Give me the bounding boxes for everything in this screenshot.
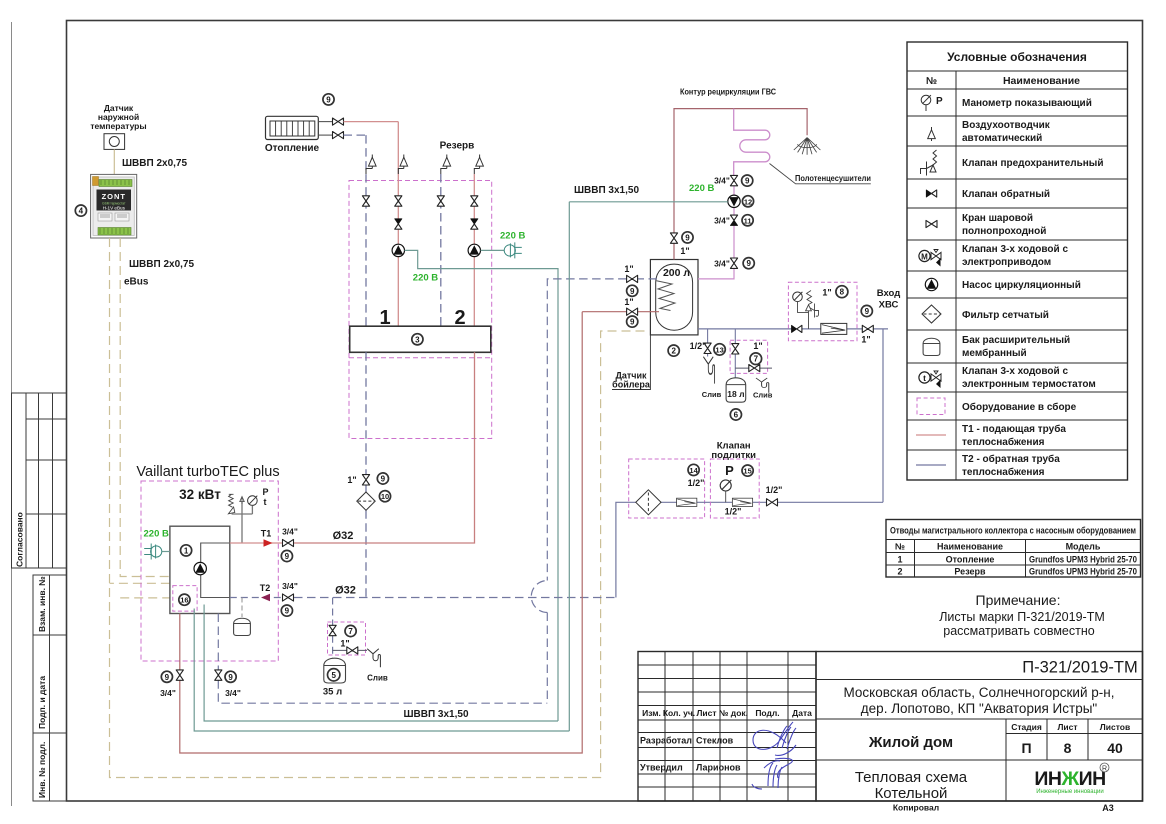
position 9 badge <box>682 232 693 243</box>
svg-text:Стадия: Стадия <box>1011 722 1042 732</box>
valve on riser D <box>471 196 478 206</box>
svg-text:П: П <box>1021 740 1031 756</box>
svg-text:10: 10 <box>381 492 389 501</box>
svg-text:Резерв: Резерв <box>954 567 986 577</box>
position 9 badge <box>225 671 236 682</box>
svg-text:1/2": 1/2" <box>690 341 707 351</box>
svg-text:Изм.: Изм. <box>642 708 661 718</box>
svg-text:ШВВП 2x0,75: ШВВП 2x0,75 <box>122 158 187 169</box>
legend symbol: 3-way valve with thermostat <box>919 371 941 388</box>
svg-text:Московская область, Солнечного: Московская область, Солнечногорский р-н, <box>844 685 1115 700</box>
svg-text:P: P <box>936 96 943 107</box>
svg-text:16: 16 <box>180 596 188 605</box>
svg-text:ШВВП 2x0,75: ШВВП 2x0,75 <box>129 259 194 270</box>
gauge stem <box>798 302 809 313</box>
svg-text:9: 9 <box>685 233 690 242</box>
wire 220V pump 2 <box>481 249 504 251</box>
make-up filter box 14 <box>629 459 705 518</box>
svg-text:Согласовано: Согласовано <box>15 512 25 567</box>
3-way valve zone dashed box <box>173 586 197 612</box>
pressure reducer spring <box>806 291 819 329</box>
svg-text:электронным термостатом: электронным термостатом <box>962 379 1096 390</box>
boiler internal pipe <box>201 543 230 598</box>
svg-text:Grundfos UPM3 Hybrid 25-70: Grundfos UPM3 Hybrid 25-70 <box>1029 555 1137 565</box>
svg-text:18 л: 18 л <box>727 389 744 399</box>
drain siphon <box>367 649 380 668</box>
boiler safety group piping <box>232 498 253 543</box>
signature scribbles <box>752 722 796 789</box>
valve 3/4" on cold pipe <box>215 670 222 680</box>
svg-text:200 л: 200 л <box>663 267 690 279</box>
plug pump 2 <box>504 242 522 258</box>
drain siphon 13 <box>703 357 714 384</box>
svg-text:ХВС: ХВС <box>879 300 899 311</box>
svg-text:Условные обозначения: Условные обозначения <box>947 50 1087 64</box>
svg-text:Насос циркуляционный: Насос циркуляционный <box>962 280 1081 291</box>
valve 3/4" top <box>730 175 737 185</box>
expansion tank 18l group box 7 <box>730 340 768 373</box>
legend symbol: strainer <box>922 305 941 323</box>
svg-text:t: t <box>923 373 926 383</box>
svg-text:Листы марки П-321/2019-ТМ: Листы марки П-321/2019-ТМ <box>939 610 1105 624</box>
svg-text:Копировал: Копировал <box>893 803 939 813</box>
legend symbol: T1 line <box>916 434 946 436</box>
svg-text:1/2": 1/2" <box>688 478 705 488</box>
valve on riser B <box>395 196 402 206</box>
svg-text:ШВВП 3х1,50: ШВВП 3х1,50 <box>574 185 639 196</box>
svg-text:220 В: 220 В <box>689 183 714 194</box>
svg-text:1/2": 1/2" <box>766 485 783 495</box>
recirculation drop with fittings <box>698 176 734 279</box>
cable eBus: ZONT to boiler <box>120 238 170 577</box>
wire 220V recirculation pump <box>569 201 728 203</box>
wire coil supply (from boiler DHW) <box>582 311 659 313</box>
boiler expansion tank stub <box>241 598 243 618</box>
check valve on riser B <box>395 219 402 229</box>
outdoor temperature sensor <box>104 134 125 150</box>
inlet valve 1" <box>862 325 873 332</box>
radiator supply stub <box>318 121 332 123</box>
svg-text:Тепловая схема: Тепловая схема <box>855 769 968 786</box>
position 11 badge <box>742 215 753 226</box>
riser B (heating supply, T1) <box>397 122 399 327</box>
collector group divider dashed <box>349 357 492 359</box>
svg-text:9: 9 <box>381 475 386 484</box>
svg-text:Оборудование в сборе: Оборудование в сборе <box>962 401 1077 413</box>
svg-text:1": 1" <box>822 288 831 298</box>
svg-text:Контур рециркуляции ГВС: Контур рециркуляции ГВС <box>680 87 776 97</box>
svg-text:Наименование: Наименование <box>1003 75 1080 87</box>
svg-text:А3: А3 <box>1102 803 1114 813</box>
controller ZONT H-1V eBus <box>91 174 137 238</box>
position 6 badge <box>730 409 741 420</box>
safety group dashed box 7 <box>328 622 366 655</box>
boiler power wire <box>162 551 170 553</box>
left margin stamp: inventory block <box>33 575 67 801</box>
drain siphon 18l <box>756 378 769 393</box>
svg-text:температуры: температуры <box>90 121 146 131</box>
svg-text:Т2 - обратная труба: Т2 - обратная труба <box>962 453 1060 465</box>
svg-text:3/4": 3/4" <box>714 259 730 269</box>
svg-text:мембранный: мембранный <box>962 347 1027 359</box>
svg-text:Воздухоотводчик: Воздухоотводчик <box>962 120 1051 131</box>
valve 1" on T2 drop <box>362 475 369 485</box>
position 7 badge <box>345 625 356 636</box>
assembled equipment dashed box: collector group <box>349 181 492 439</box>
svg-text:Лист: Лист <box>696 708 716 718</box>
svg-text:Котельной: Котельной <box>875 785 948 802</box>
svg-text:9: 9 <box>745 177 750 186</box>
air vent A foot <box>366 169 372 175</box>
svg-text:рассматривать совместно: рассматривать совместно <box>943 624 1094 638</box>
svg-text:Модель: Модель <box>1066 542 1101 552</box>
wire cold water main <box>698 328 888 330</box>
reducer cone 15 <box>732 498 752 506</box>
position 10 badge <box>379 491 390 502</box>
svg-text:T2: T2 <box>260 583 271 593</box>
svg-text:2: 2 <box>897 567 902 577</box>
svg-text:Отопление: Отопление <box>946 555 995 565</box>
svg-text:eBus: eBus <box>124 277 149 288</box>
tank sensor leader <box>612 335 650 390</box>
air vent C <box>443 155 451 169</box>
air vent C foot <box>441 169 447 175</box>
check valve in box 8 <box>792 325 802 332</box>
svg-text:35 л: 35 л <box>323 687 342 698</box>
svg-text:Стеклов: Стеклов <box>696 736 734 746</box>
svg-text:Листов: Листов <box>1100 722 1130 732</box>
position 9 badge <box>743 258 754 269</box>
svg-text:P: P <box>725 463 734 478</box>
svg-text:Инв. № подл.: Инв. № подл. <box>37 742 47 798</box>
wire T2 radiator return (dashed) <box>344 134 367 136</box>
legend symbol: expansion tank <box>923 338 940 355</box>
wire sensor to controller <box>113 149 115 174</box>
svg-text:9: 9 <box>165 673 170 682</box>
svg-text:4: 4 <box>79 207 84 216</box>
riser C (reserve return) <box>440 174 442 326</box>
svg-text:ИНЖИН: ИНЖИН <box>1034 768 1105 790</box>
svg-text:7: 7 <box>348 627 353 636</box>
wire T1 from collector down to boiler line <box>294 352 475 543</box>
svg-text:R: R <box>1102 766 1107 773</box>
svg-text:220 В: 220 В <box>500 231 525 242</box>
make-up wire <box>616 502 883 597</box>
pressure group dashed box 8 <box>788 282 857 341</box>
svg-text:t: t <box>264 497 267 507</box>
expansion tank 35l <box>324 658 346 683</box>
valve 3/4" bottom <box>730 258 737 268</box>
gauge 15 <box>720 480 731 491</box>
svg-text:6: 6 <box>734 411 739 420</box>
svg-text:3/4": 3/4" <box>225 688 241 698</box>
position 5 badge <box>328 669 340 681</box>
svg-text:1": 1" <box>624 264 633 274</box>
svg-text:P: P <box>263 487 269 497</box>
svg-text:Отводы магистрального коллекто: Отводы магистрального коллектора с насос… <box>890 526 1136 537</box>
valve 1" coil supply <box>627 308 638 315</box>
shower spray symbol <box>794 138 821 155</box>
svg-text:Бак расширительный: Бак расширительный <box>962 335 1070 346</box>
svg-text:бойлера: бойлера <box>612 380 651 390</box>
svg-text:1": 1" <box>753 341 762 351</box>
svg-text:40: 40 <box>1107 740 1123 756</box>
heating radiator <box>266 116 319 139</box>
position 1 badge <box>181 545 192 556</box>
pump 2 on riser D <box>468 244 480 256</box>
svg-text:3: 3 <box>415 335 420 344</box>
valve T2 3/4" <box>283 594 294 601</box>
svg-text:1: 1 <box>184 546 189 555</box>
air vent B foot <box>398 169 404 175</box>
position 12 badge <box>742 196 753 207</box>
DHW riser from tank top <box>674 109 807 260</box>
svg-text:2: 2 <box>671 347 676 356</box>
svg-text:Полотенцесушители: Полотенцесушители <box>795 173 871 183</box>
legend symbol: pump <box>925 278 937 290</box>
legend symbol: assembled equipment dashed box <box>917 398 945 415</box>
boiler body <box>170 526 230 613</box>
svg-text:Разработал: Разработал <box>640 736 692 746</box>
svg-text:Жилой дом: Жилой дом <box>868 734 953 751</box>
boiler safety valve <box>228 494 234 514</box>
outdoor temperature sensor label <box>90 103 146 131</box>
svg-text:Клапан 3-х ходовой с: Клапан 3-х ходовой с <box>962 244 1068 255</box>
svg-text:Ларионов: Ларионов <box>696 763 741 773</box>
position 9 badge <box>627 285 638 296</box>
towel warmer serpentine <box>734 109 770 176</box>
legend symbol: pressure gauge <box>921 95 943 111</box>
wire 220V boiler run A <box>204 605 558 722</box>
svg-text:полнопроходной: полнопроходной <box>962 226 1046 237</box>
radiator supply valve <box>333 118 344 125</box>
check valve on riser D <box>471 219 478 229</box>
svg-text:3/4": 3/4" <box>282 581 298 591</box>
position 3 badge <box>412 334 423 345</box>
position 9 badge <box>281 550 292 561</box>
svg-text:Отопление: Отопление <box>265 143 320 154</box>
svg-text:Grundfos UPM3 Hybrid 25-70: Grundfos UPM3 Hybrid 25-70 <box>1029 567 1137 577</box>
wire T1 radiator supply <box>344 121 399 123</box>
svg-text:220 В: 220 В <box>144 529 169 540</box>
svg-text:Подл.: Подл. <box>755 708 779 718</box>
strainer cone in box 8 <box>821 323 847 334</box>
position 8 badge <box>836 286 848 298</box>
strainer filter on T2 drop <box>357 492 375 510</box>
radiator return stub <box>318 134 332 136</box>
svg-text:12: 12 <box>744 197 752 206</box>
svg-text:Клапан обратный: Клапан обратный <box>962 188 1050 200</box>
svg-text:М: М <box>921 252 928 261</box>
collector <box>350 326 491 352</box>
expansion tank 18l <box>726 378 746 402</box>
svg-text:теплоснабжения: теплоснабжения <box>962 466 1045 478</box>
svg-text:Инженерные инновации: Инженерные инновации <box>1036 789 1104 795</box>
svg-text:1": 1" <box>861 335 870 345</box>
svg-text:15: 15 <box>743 467 751 476</box>
svg-text:теплоснабжения: теплоснабжения <box>962 436 1045 448</box>
leader to towel warmer label <box>770 164 871 184</box>
position 15 badge <box>742 465 753 476</box>
svg-text:9: 9 <box>630 287 635 296</box>
svg-text:Подп. и дата: Подп. и дата <box>37 676 47 729</box>
svg-text:1": 1" <box>347 475 356 485</box>
svg-text:автоматический: автоматический <box>962 133 1042 144</box>
svg-text:Слив: Слив <box>753 391 773 400</box>
cable boiler tank sensor: boiler down and around to tank <box>110 238 649 778</box>
svg-text:1: 1 <box>897 555 902 565</box>
boiler bottom cold pipe (dashed) <box>218 614 547 704</box>
cable stub to 3-way valve zone <box>120 597 170 599</box>
crossing hop on coil return <box>531 581 547 613</box>
position 9 badge <box>377 473 388 484</box>
legend symbol: safety valve <box>921 150 937 176</box>
svg-text:Ø32: Ø32 <box>335 585 356 597</box>
wire T1 boiler outlet with arrow <box>230 542 283 544</box>
svg-text:32 кВт: 32 кВт <box>179 487 221 502</box>
pump 1 on riser B <box>392 244 404 256</box>
left trim line <box>11 22 13 806</box>
riser D (reserve supply) <box>473 174 475 326</box>
wire cold water down to make-up <box>882 329 884 502</box>
make-up valve box 15 <box>710 459 759 518</box>
svg-text:T1: T1 <box>261 529 272 539</box>
legend symbol: air vent <box>928 127 936 141</box>
svg-text:П-321/2019-ТМ: П-321/2019-ТМ <box>1022 659 1138 677</box>
svg-text:Утвердил: Утвердил <box>640 763 683 773</box>
svg-text:H-1V eBus: H-1V eBus <box>103 205 126 210</box>
svg-text:9: 9 <box>630 318 635 327</box>
tank heating coil <box>657 281 676 311</box>
svg-text:ZONT: ZONT <box>102 192 126 201</box>
svg-text:Клапан 3-х ходовой с: Клапан 3-х ходовой с <box>962 366 1068 377</box>
position 16 badge <box>179 594 190 605</box>
position 14 badge <box>688 464 699 475</box>
position 9 badge above radiator valves <box>323 94 334 105</box>
reducer cone 14 <box>677 498 697 506</box>
svg-text:Примечание:: Примечание: <box>976 592 1061 608</box>
svg-text:дер. Лопотово, КП "Акватория И: дер. Лопотово, КП "Акватория Истры" <box>861 701 1098 716</box>
drain valve 13 drop <box>707 329 709 357</box>
svg-text:Резерв: Резерв <box>440 141 475 152</box>
svg-text:Ø32: Ø32 <box>333 530 354 542</box>
svg-text:3/4": 3/4" <box>714 216 730 226</box>
svg-text:11: 11 <box>744 216 752 225</box>
position 7 badge <box>750 353 762 365</box>
svg-text:№: № <box>895 542 905 552</box>
svg-text:Фильтр сетчатый: Фильтр сетчатый <box>962 310 1049 321</box>
legend symbol: ball valve <box>926 220 937 227</box>
svg-text:3/4": 3/4" <box>160 688 176 698</box>
wire 220V pump 1 <box>405 250 558 721</box>
svg-text:9: 9 <box>285 552 290 561</box>
svg-text:3/4": 3/4" <box>714 176 730 186</box>
svg-text:Кол. уч.: Кол. уч. <box>663 708 695 718</box>
position 9 badge <box>742 175 753 186</box>
svg-text:9: 9 <box>228 673 233 682</box>
assembled equipment dashed box: boiler <box>141 481 278 661</box>
svg-text:9: 9 <box>285 607 290 616</box>
svg-text:7: 7 <box>754 355 759 364</box>
gauge in box 8 <box>793 292 803 302</box>
boiler expansion tank <box>234 618 251 635</box>
svg-text:1": 1" <box>340 639 349 649</box>
svg-text:1": 1" <box>680 246 689 256</box>
wire T2 boiler return with arrow <box>230 597 283 599</box>
svg-text:Лист: Лист <box>1057 722 1077 732</box>
svg-text:Слив: Слив <box>367 674 388 683</box>
svg-text:Наименование: Наименование <box>937 542 1003 552</box>
svg-text:8: 8 <box>1064 740 1072 756</box>
check valve 11 <box>730 215 737 225</box>
legend symbol: check valve <box>926 190 936 197</box>
svg-text:13: 13 <box>715 345 723 354</box>
svg-text:электроприводом: электроприводом <box>962 257 1051 268</box>
position 4 badge <box>75 205 86 216</box>
svg-text:8: 8 <box>840 288 845 297</box>
svg-text:3/4": 3/4" <box>282 527 298 537</box>
svg-text:Слив: Слив <box>702 390 722 399</box>
svg-text:9: 9 <box>746 259 751 268</box>
valve on DHW riser <box>670 233 677 243</box>
svg-text:Клапан предохранительный: Клапан предохранительный <box>962 158 1103 169</box>
position 13 badge <box>714 344 725 355</box>
plug boiler <box>144 544 162 560</box>
radiator return valve <box>333 132 344 139</box>
tank body <box>650 260 698 335</box>
svg-text:Вход: Вход <box>877 288 901 299</box>
INJIN logo <box>1034 763 1109 795</box>
expansion tank 35l drop from T2 <box>332 598 334 659</box>
drain branch with valve <box>333 649 367 651</box>
valve on tank drop <box>329 625 336 635</box>
svg-text:Vaillant turboTEC plus: Vaillant turboTEC plus <box>136 464 279 480</box>
svg-text:14: 14 <box>689 466 698 475</box>
position 2 badge <box>668 345 679 356</box>
svg-text:1": 1" <box>624 297 633 307</box>
valve on riser C <box>437 196 444 206</box>
svg-text:9: 9 <box>865 307 870 316</box>
valve T1 3/4" <box>283 539 294 546</box>
air vent D <box>476 155 484 169</box>
position 9 badge <box>281 605 292 616</box>
svg-text:9: 9 <box>326 95 331 104</box>
strainer diamond 14 <box>636 490 661 515</box>
svg-text:ШВВП 3х1,50: ШВВП 3х1,50 <box>403 709 468 720</box>
boiler air vent arrow <box>240 497 244 504</box>
boiler bottom DHW supply pipe <box>180 312 582 753</box>
air vent B <box>400 155 408 169</box>
svg-text:Манометр показывающий: Манометр показывающий <box>962 98 1092 109</box>
valve 1" coil return <box>627 275 638 282</box>
position 9 badge <box>627 316 638 327</box>
wire coil return (dashed) <box>547 279 657 703</box>
valve 3/4" on DHW supply <box>176 670 183 680</box>
drop to 18l tank <box>734 329 736 378</box>
position 9 badge <box>161 671 172 682</box>
svg-text:№ док.: № док. <box>719 708 748 718</box>
riser A (heating return, T2) <box>365 135 367 326</box>
valve on riser A <box>362 196 369 206</box>
svg-text:Т1 - подающая труба: Т1 - подающая труба <box>962 423 1066 435</box>
svg-text:220 В: 220 В <box>413 273 438 284</box>
air vent D foot <box>474 169 479 175</box>
svg-text:Кран шаровой: Кран шаровой <box>962 213 1033 224</box>
drain branch 18l <box>735 367 772 369</box>
position 9 badge <box>861 305 872 316</box>
svg-text:№: № <box>926 76 937 87</box>
svg-text:Взам. инв. №: Взам. инв. № <box>37 576 47 632</box>
